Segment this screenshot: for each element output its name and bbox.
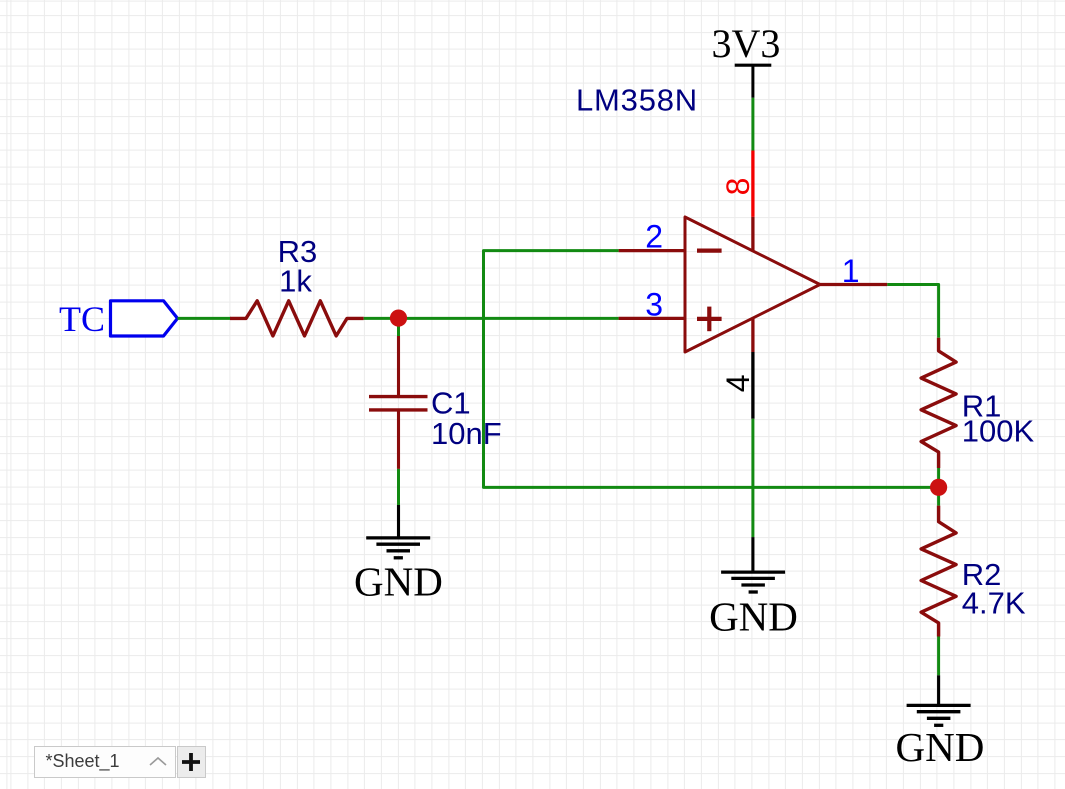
ground under C1 xyxy=(366,505,430,558)
svg-text:3: 3 xyxy=(645,286,663,322)
svg-text:100K: 100K xyxy=(962,414,1035,449)
svg-text:10nF: 10nF xyxy=(431,416,502,451)
wire pin 1 to R1 xyxy=(887,285,938,338)
ground under op-amp xyxy=(721,537,785,592)
resistor R2 xyxy=(921,506,956,637)
power 3V3 xyxy=(712,21,781,98)
svg-text:3V3: 3V3 xyxy=(712,21,781,66)
svg-text:LM358N: LM358N xyxy=(576,83,698,118)
wire pin 4 to ground xyxy=(751,419,754,537)
wire TC to R3 xyxy=(178,317,232,320)
wire junction B to R2 xyxy=(937,487,940,505)
feedback wire junction B to pin 2 xyxy=(484,251,939,488)
pin 4 xyxy=(751,319,754,419)
wire 3V3 to pin 8 xyxy=(751,98,754,151)
wire R1 to junction B xyxy=(937,468,940,487)
sheet tab bar xyxy=(34,746,206,776)
svg-text:GND: GND xyxy=(709,593,798,639)
svg-text:TC: TC xyxy=(59,299,105,339)
svg-text:8: 8 xyxy=(720,178,756,196)
svg-text:4.7K: 4.7K xyxy=(962,586,1026,621)
net port TC xyxy=(59,299,178,339)
ground under R2 xyxy=(907,675,971,725)
op-amp U1 xyxy=(685,217,820,352)
pin 1 xyxy=(820,283,887,286)
pin 2 xyxy=(619,249,685,252)
svg-text:1k: 1k xyxy=(279,264,312,299)
wire C1 to ground xyxy=(397,469,400,506)
wire R2 to ground xyxy=(937,637,940,676)
svg-text:4: 4 xyxy=(720,375,756,393)
pin 3 xyxy=(619,317,685,320)
svg-text:GND: GND xyxy=(354,559,443,605)
svg-text:GND: GND xyxy=(895,724,984,770)
resistor R3 xyxy=(230,301,364,336)
minus input mark xyxy=(697,249,722,253)
plus input mark xyxy=(697,307,722,332)
junction node A xyxy=(390,310,407,327)
svg-text:1: 1 xyxy=(842,253,860,289)
capacitor C1 xyxy=(369,336,428,469)
resistor R1 xyxy=(921,338,956,468)
wire R3 to junction and to pin 3 xyxy=(364,317,619,320)
pin 8 xyxy=(751,151,754,252)
wire junction down to C1 xyxy=(397,318,400,337)
svg-text:2: 2 xyxy=(645,219,663,255)
junction node B xyxy=(930,479,947,496)
